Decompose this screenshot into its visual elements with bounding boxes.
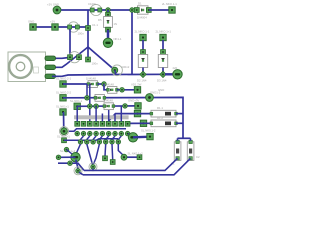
- pad ring left of IC: [59, 127, 68, 136]
- pad TP+2V: [47, 3, 61, 14]
- pad row D end: [128, 99, 141, 110]
- pad 2L.NKO.1-1 top right: [162, 2, 177, 13]
- wire GND thick: [133, 136, 147, 139]
- wire C7 down to C1: [69, 29, 71, 57]
- wire vertical rowA-rowC: [86, 84, 88, 98]
- wire weave between IC rows: [68, 129, 126, 132]
- node x132 top: [130, 8, 135, 13]
- wire from pad along y=140: [64, 139, 118, 141]
- diode D5: [98, 12, 117, 32]
- wire D1 to pad: [149, 9, 169, 11]
- wire stub to pad C1.2: [87, 47, 89, 60]
- svg-text:100n: 100n: [78, 32, 85, 36]
- svg-text:1N4148: 1N4148: [86, 77, 96, 81]
- speaker LS1: [8, 52, 56, 82]
- wire pad to D4: [162, 40, 164, 52]
- wire R2 right: [176, 122, 183, 124]
- wire row A: [63, 83, 88, 85]
- wires IC row2 to via row: [81, 136, 122, 140]
- wire thick to pad 220: [165, 73, 173, 75]
- wire speaker pin1: [52, 56, 70, 59]
- svg-text:1N: 1N: [114, 22, 118, 26]
- junction D3: [140, 71, 147, 78]
- pad left small: [56, 155, 61, 160]
- wire second left run y=163: [58, 161, 84, 171]
- pad row D left: [70, 99, 83, 110]
- IC U1 pin row 1: [75, 121, 130, 126]
- svg-text:GND1-2: GND1-2: [150, 91, 161, 95]
- via row y=141.8: [78, 140, 120, 145]
- node row D c: [123, 104, 128, 109]
- wire row y=157: [124, 156, 140, 158]
- pad SL.NKO.2-2: [56, 90, 72, 101]
- svg-text:1N4004: 1N4004: [137, 16, 147, 20]
- pad SL bottom left: [57, 135, 70, 143]
- capacitor CE1: [171, 140, 181, 165]
- IC U1 pin row 2: [75, 131, 130, 136]
- node row A end: [102, 82, 107, 87]
- pad y157 right: [128, 151, 144, 159]
- svg-text:1N4148: 1N4148: [104, 83, 114, 87]
- svg-text:220: 220: [173, 66, 178, 70]
- pad cluster b2: [103, 156, 108, 161]
- diode DD: [103, 99, 115, 110]
- svg-text:D3 1N4: D3 1N4: [157, 79, 167, 83]
- svg-text:2L.NKO.1-1: 2L.NKO.1-1: [162, 2, 177, 6]
- pad NK1-1: [103, 37, 122, 48]
- wire diagonal to speaker pin2: [52, 47, 88, 67]
- wire bigpad GND to IC: [128, 134, 133, 138]
- node row F: [140, 120, 146, 126]
- svg-text:SL.NK0.1+2: SL.NK0.1+2: [128, 151, 144, 155]
- svg-text:GND+3V: GND+3V: [128, 99, 139, 103]
- capacitor CE2: [187, 140, 200, 160]
- pad +2V: [50, 20, 58, 31]
- wires via row fan down: [76, 144, 124, 165]
- svg-text:D5: D5: [98, 18, 102, 22]
- svg-text:D1: D1: [138, 2, 142, 6]
- node row C left: [85, 96, 90, 101]
- svg-text:C2: C2: [196, 155, 200, 159]
- pad SL.NKO.2-1: [56, 77, 72, 88]
- pad SL.NK1+1 left: [56, 105, 69, 132]
- svg-text:SL.NKO.2-2: SL.NKO.2-2: [56, 90, 72, 94]
- wire vertical x=88: [87, 10, 89, 47]
- svg-text:2L.NKO.1+1: 2L.NKO.1+1: [156, 30, 172, 34]
- diode D1: [134, 2, 151, 20]
- wire bend to row B: [104, 84, 108, 90]
- resistor R1: [150, 106, 177, 117]
- capacitor C6: [90, 4, 102, 15]
- wire CE2 bottom run: [83, 158, 191, 175]
- wire CE1 bottom run: [84, 158, 178, 170]
- svg-text:2L.NKO.1-1: 2L.NKO.1-1: [135, 30, 150, 34]
- svg-text:GND: GND: [28, 20, 34, 24]
- capacitor C4: [112, 65, 123, 76]
- node row D b: [94, 104, 99, 109]
- svg-text:SL.NKO.2-1: SL.NKO.2-1: [56, 77, 72, 81]
- pad big bottom SL: [59, 149, 81, 169]
- wire row C long: [63, 97, 183, 138]
- wire J1 to D5: [107, 10, 109, 16]
- wire CE2 top: [190, 138, 192, 141]
- svg-text:C100n: C100n: [88, 2, 97, 6]
- pad VD1.2W: [131, 82, 142, 93]
- wire CE1 top: [177, 138, 179, 141]
- resistor R2: [150, 116, 177, 127]
- wire y=27: [33, 26, 88, 28]
- node row E: [134, 110, 140, 116]
- pad upper small: [64, 147, 72, 154]
- svg-text:VD1.2W: VD1.2W: [131, 82, 142, 86]
- pad cluster b3: [110, 160, 115, 165]
- pad GND1-2: [146, 91, 161, 102]
- IC U1 body: [74, 115, 129, 119]
- diode DA: [86, 77, 99, 88]
- capacitor C1: [68, 52, 82, 63]
- pad ring bottom left: [74, 167, 83, 175]
- wire pad to D3: [142, 40, 144, 52]
- pad GND: [28, 20, 36, 31]
- pad 2L.NKO.1-1: [135, 30, 150, 41]
- wire D5 to NK pad (thick): [107, 30, 110, 40]
- wire right bus bottom: [178, 137, 191, 139]
- wire row B: [117, 89, 135, 91]
- svg-text:SL.NK0.1-2: SL.NK0.1-2: [141, 129, 156, 133]
- wire vertical rowA-IC: [89, 84, 91, 121]
- svg-text:1N4148: 1N4148: [103, 99, 113, 103]
- diode D4: [158, 50, 167, 72]
- wire row F: [130, 122, 152, 124]
- node y157: [121, 154, 127, 160]
- svg-text:R1.2: R1.2: [157, 116, 163, 120]
- wire row A to row B: [97, 83, 104, 85]
- wire top rail y=10: [57, 9, 132, 11]
- node J1: [106, 8, 111, 13]
- wire row D: [77, 105, 135, 107]
- wire x=132 vertical: [131, 10, 133, 75]
- wire R1 right: [176, 113, 183, 115]
- diode DB: [104, 83, 118, 94]
- pad right of GND: [141, 129, 156, 140]
- wire main y=74.5: [52, 74, 174, 76]
- diode D3: [138, 50, 147, 72]
- svg-text:+2V GND: +2V GND: [47, 3, 59, 7]
- svg-text:R1.1: R1.1: [157, 106, 163, 110]
- svg-text:+2V: +2V: [50, 20, 55, 24]
- svg-text:SL.NK1-1: SL.NK1-1: [70, 99, 83, 103]
- svg-text:SL.NK1+1: SL.NK1+1: [56, 105, 69, 109]
- pad GND big: [128, 133, 137, 142]
- diode DC: [94, 95, 106, 102]
- pad 220: [173, 66, 183, 79]
- junction D4: [160, 71, 167, 78]
- wires above IC: [77, 106, 121, 121]
- svg-text:100n2: 100n2: [122, 65, 130, 69]
- svg-text:C1.1: C1.1: [92, 23, 98, 27]
- pad C1.2: [86, 57, 99, 65]
- pad 2L.NKO.1+1: [156, 30, 172, 41]
- svg-text:100n: 100n: [92, 62, 99, 66]
- svg-text:SL.NK1+1: SL.NK1+1: [57, 135, 70, 139]
- wire diagonal to C4: [88, 47, 115, 70]
- wire row E: [109, 114, 151, 121]
- pad ring bottom: [89, 163, 97, 171]
- capacitor C7: [68, 22, 80, 32]
- node row D a: [88, 104, 93, 109]
- svg-text:NK1-1: NK1-1: [114, 37, 122, 41]
- pad on x=88: [86, 23, 99, 30]
- node row B: [120, 88, 125, 93]
